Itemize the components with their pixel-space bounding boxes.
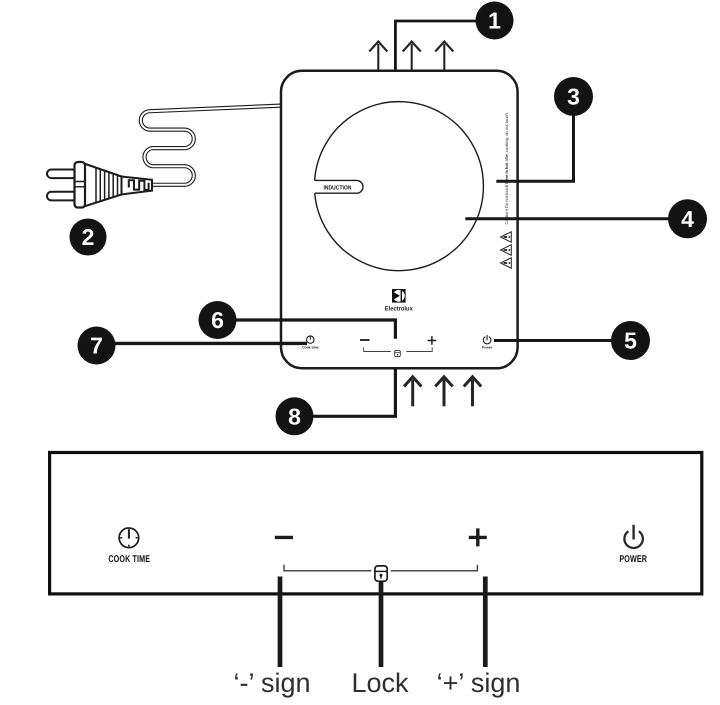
power icon: [624, 525, 642, 548]
svg-text:5: 5: [624, 328, 637, 354]
callout 4: [668, 199, 707, 238]
bottom arrow 2: [435, 377, 452, 407]
callout 3: [554, 77, 593, 116]
svg-text:‘+’ sign: ‘+’ sign: [437, 668, 521, 698]
faceplate band: [75, 182, 86, 187]
Electrolux logo: [392, 289, 406, 303]
plug cone body: [84, 164, 122, 207]
callout line 3: [496, 115, 573, 181]
callout line 4: [465, 217, 669, 220]
callout 1: [476, 2, 514, 40]
svg-text:Caution! Do not touch Here is: Caution! Do not touch Here is hot after …: [504, 112, 509, 224]
svg-text:Lock: Lock: [351, 668, 409, 698]
top arrow 2: [403, 42, 421, 71]
bottom arrow 3: [464, 377, 481, 407]
svg-text:Cook time: Cook time: [302, 345, 319, 349]
control panel detail box: [50, 453, 702, 594]
plus sign small: [428, 336, 437, 345]
lock icon: [375, 566, 387, 581]
plug prong bottom: [47, 192, 79, 201]
svg-text:7: 7: [90, 333, 103, 359]
callout line 7: [115, 342, 307, 345]
callout 8: [276, 397, 314, 435]
lock bracket small: [364, 347, 433, 351]
bottom arrow 1: [404, 377, 421, 407]
warning triangle 2: [501, 245, 512, 256]
lock icon small: [395, 350, 401, 356]
power icon small: [482, 335, 493, 349]
lock leader line: [379, 582, 384, 667]
minus sign: [275, 536, 293, 539]
svg-text:Power: Power: [482, 345, 493, 349]
induction cooktop body: [281, 71, 518, 369]
callout 6: [199, 301, 237, 339]
svg-text:INDUCTION: INDUCTION: [323, 184, 351, 191]
callout 2: [70, 219, 107, 256]
callout line 5: [494, 339, 612, 342]
svg-text:2: 2: [82, 224, 95, 250]
cook time icon small: [302, 336, 319, 349]
top arrow 3: [435, 42, 453, 71]
minus sign small: [360, 339, 370, 341]
cook time icon: [119, 528, 139, 548]
svg-text:POWER: POWER: [619, 554, 647, 565]
power plug: [47, 162, 152, 208]
plug snout with strain relief: [122, 177, 153, 195]
power cable: [141, 106, 281, 185]
lock bracket: [284, 565, 477, 571]
induction tab: [315, 180, 363, 193]
svg-text:Electrolux: Electrolux: [385, 306, 413, 313]
minus leader line: [278, 577, 283, 668]
callout line 8: [314, 368, 396, 416]
cooking zone circle: [315, 102, 484, 271]
callout 5: [611, 321, 650, 360]
svg-text:COOK TIME: COOK TIME: [108, 554, 150, 565]
warning triangle 1: [501, 232, 512, 243]
strain relief meander: [129, 180, 149, 190]
callout line 6: [236, 320, 395, 339]
plug cone ribs: [96, 168, 121, 203]
plus leader line: [483, 577, 488, 668]
warning triangle 3: [501, 258, 512, 269]
svg-text:1: 1: [488, 8, 501, 34]
plug prong top: [47, 170, 79, 179]
plus sign: [469, 528, 487, 546]
svg-text:8: 8: [288, 403, 301, 429]
callout line 1: [395, 21, 476, 71]
svg-text:‘-’ sign: ‘-’ sign: [233, 668, 310, 698]
svg-text:6: 6: [211, 307, 224, 333]
top arrow 1: [369, 42, 387, 71]
plug faceplate: [75, 162, 86, 208]
svg-text:3: 3: [567, 84, 580, 110]
svg-text:4: 4: [681, 206, 694, 232]
callout 7: [78, 327, 116, 365]
